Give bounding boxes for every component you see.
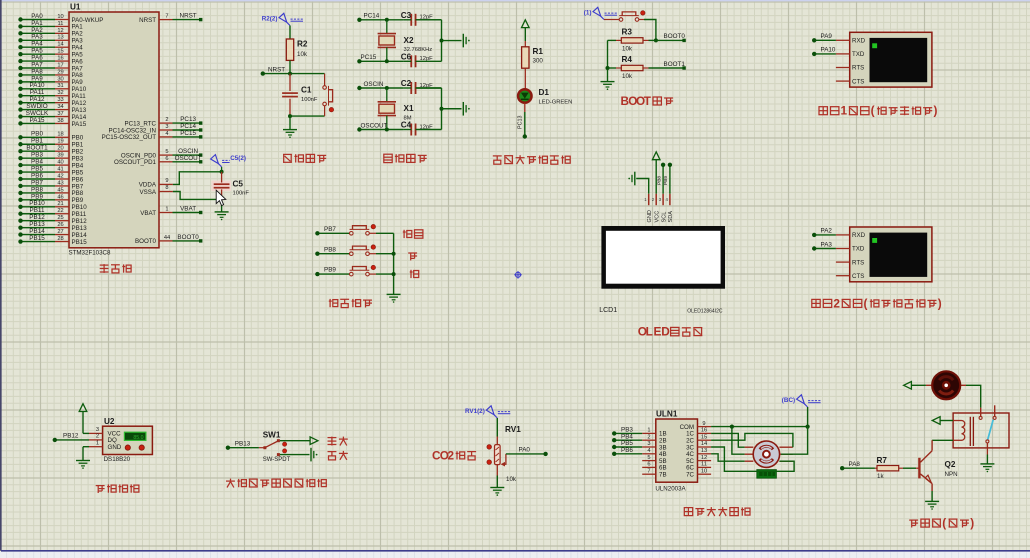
wire 4C to motor lower-left — [711, 454, 745, 461]
svg-text:ULN1: ULN1 — [656, 409, 678, 418]
wire coil to Q2 collector — [932, 439, 953, 441]
ground below relay — [980, 463, 994, 465]
svg-text:PB12: PB12 — [72, 218, 88, 225]
node COM junction right — [806, 425, 810, 429]
wire throw1 to power arrow — [280, 440, 310, 442]
motor green label — [757, 470, 777, 479]
node COM junction left — [730, 425, 734, 429]
svg-text:C6: C6 — [401, 53, 412, 62]
driver ULN1 ULN2003A — [655, 409, 697, 492]
svg-text:OLED12864I2C: OLED12864I2C — [687, 309, 723, 315]
label 程序运行指示灯 (program running indicator) — [493, 156, 502, 164]
svg-text:7B: 7B — [659, 472, 667, 479]
mouse cursor — [216, 190, 226, 205]
label 加 (plus) — [408, 253, 417, 260]
svg-text:2: 2 — [647, 434, 650, 440]
pin OSCOUT_PD1 (pin 6) with net OSCOUT — [114, 155, 202, 166]
svg-text:(: ( — [871, 104, 875, 118]
capacitor C1 100nF — [282, 74, 318, 117]
wire power to VCC — [82, 412, 84, 434]
svg-text:U2: U2 — [104, 417, 115, 426]
svg-text:11: 11 — [701, 462, 707, 468]
svg-text:21: 21 — [57, 201, 63, 207]
svg-text:PA10: PA10 — [821, 47, 836, 54]
potentiometer RV1 10k — [495, 425, 522, 483]
ULN pin 7C (pin 10) — [686, 468, 711, 478]
svg-text:PA8: PA8 — [849, 461, 861, 468]
pin PC15-OSC32_OUT (pin 4) with net PC15 — [102, 130, 203, 141]
pin PA7 (pin 17) with net PA7 — [18, 61, 83, 72]
svg-text:PB6: PB6 — [31, 172, 43, 179]
pin PB14 (pin 27) with net PB14 — [18, 228, 87, 239]
svg-text:1: 1 — [841, 104, 848, 118]
svg-text:10k: 10k — [297, 51, 308, 58]
svg-text:BOOT0: BOOT0 — [135, 238, 157, 245]
wire button to bus — [369, 273, 376, 275]
voltage probe (BC) — [804, 404, 807, 407]
svg-text:10k: 10k — [622, 46, 633, 53]
svg-text:16: 16 — [57, 55, 63, 61]
svg-text:PB9: PB9 — [663, 176, 669, 185]
svg-text:13: 13 — [701, 448, 707, 454]
svg-text:PB1: PB1 — [72, 142, 84, 149]
ULN pin 1B (pin 1) — [642, 428, 666, 438]
svg-text:PB13: PB13 — [72, 225, 88, 232]
svg-text:PB1: PB1 — [31, 138, 43, 145]
svg-text:RTS: RTS — [852, 65, 864, 72]
svg-text:C5(2): C5(2) — [230, 155, 246, 162]
svg-text:20: 20 — [57, 146, 63, 152]
power symbol above U2 — [79, 404, 87, 412]
transistor Q2 NPN — [919, 440, 957, 491]
svg-text:33: 33 — [57, 97, 63, 103]
svg-text:SCL: SCL — [661, 212, 667, 223]
svg-text:46: 46 — [57, 194, 63, 200]
svg-text:16: 16 — [701, 428, 707, 434]
svg-text:31: 31 — [57, 83, 63, 89]
ground below keys — [387, 293, 401, 295]
wire 1C to motor upper-left — [711, 433, 745, 447]
terminal cursor — [872, 238, 877, 243]
net PC15 wire — [357, 54, 403, 63]
pin PB3 (pin 39) with net PB3 — [18, 152, 83, 163]
svg-text:PB14: PB14 — [72, 232, 88, 239]
ULN pin 2C (pin 15) — [686, 434, 711, 444]
svg-text:PB6: PB6 — [72, 176, 84, 183]
svg-text:15: 15 — [57, 49, 63, 55]
bus wire down to ground — [393, 233, 395, 294]
relay RL1 — [953, 405, 1009, 448]
ground below reset — [289, 116, 291, 129]
terminal pin RTS — [836, 65, 864, 72]
pin PA6 (pin 16) with net PA6 — [18, 54, 83, 65]
svg-text:D1: D1 — [539, 88, 550, 97]
wire button to BOOT0 node — [639, 19, 644, 21]
svg-text:44: 44 — [164, 235, 170, 241]
svg-text:PC15: PC15 — [180, 130, 196, 137]
svg-text:6: 6 — [647, 462, 650, 468]
pin BOOT0 (pin 44) with net BOOT0 — [135, 234, 202, 245]
pin PA12 (pin 33) with net PA12 — [18, 96, 86, 107]
net PB3 wire — [612, 427, 642, 436]
svg-text:10k: 10k — [506, 476, 517, 483]
net PA3 wire — [812, 241, 836, 250]
capacitor C4 12pF — [401, 121, 433, 136]
power symbol (left arrow) at sounder — [904, 382, 912, 390]
net BOOT0 wire — [656, 33, 686, 42]
wire emitter to ground — [931, 491, 933, 501]
svg-text:PB5: PB5 — [31, 165, 43, 172]
svg-text:RTS: RTS — [852, 259, 864, 266]
label 测温模块 (temperature module) — [96, 486, 105, 493]
pin PA10 (pin 31) with net PA10 — [18, 82, 86, 93]
pin PB0 (pin 18) with net PB0 — [18, 131, 83, 142]
svg-text:RV1(2): RV1(2) — [465, 408, 485, 415]
terminal cursor — [872, 43, 877, 48]
terminal pin RTS — [836, 259, 864, 266]
capacitor C6 12pF — [401, 53, 433, 68]
svg-text:PB11: PB11 — [30, 207, 45, 214]
display LCD1 OLED12864I2C — [599, 226, 725, 315]
ULN pin 6C (pin 11) — [686, 462, 711, 472]
svg-text:RXD: RXD — [852, 232, 866, 239]
pin PA15 (pin 38) with net PA15 — [18, 117, 86, 128]
svg-text:GND: GND — [108, 444, 122, 451]
resistor R4 10k — [608, 55, 649, 80]
pin PA14 (pin 37) with net SWCLK — [18, 110, 86, 121]
pin PB15 (pin 28) with net PB15 — [18, 235, 87, 246]
svg-text:PB8: PB8 — [324, 246, 336, 253]
pin PA11 (pin 32) with net PA11 — [18, 89, 86, 100]
RV1 wiper arrow — [501, 454, 506, 467]
label 继电器(启动) (relay start) — [909, 520, 918, 527]
wire 3C to motor lower-right — [711, 447, 794, 471]
svg-text:GND: GND — [647, 210, 653, 222]
svg-text:14: 14 — [701, 441, 707, 447]
svg-text:PB4: PB4 — [72, 162, 84, 169]
node bus junction PB9 — [392, 272, 396, 276]
svg-text:12: 12 — [57, 28, 63, 34]
ground (sideways) 有人 — [310, 448, 312, 462]
switch SW1 SW-SPDT — [259, 430, 291, 463]
svg-text:TXD: TXD — [852, 246, 865, 253]
ground below R3/R4 bus — [601, 81, 615, 83]
resistor R1 300 — [522, 41, 544, 68]
svg-text:RV1: RV1 — [505, 425, 521, 434]
pin NRST (pin 7) with net NRST — [139, 13, 202, 24]
net PB9 wire — [315, 267, 349, 277]
svg-text:37: 37 — [57, 111, 63, 117]
net PB13 wire — [226, 440, 259, 450]
svg-text:5: 5 — [647, 455, 650, 461]
resistor R7 1k — [842, 456, 919, 480]
ULN pin 3B (pin 3) — [642, 441, 666, 451]
svg-text:41: 41 — [57, 166, 63, 172]
net PB9 wire to SDA — [663, 163, 672, 194]
svg-text:NPN: NPN — [945, 471, 958, 478]
terminal pin RXD — [836, 38, 866, 45]
svg-text:PB11: PB11 — [72, 211, 87, 218]
wire R2 to NRST node — [289, 60, 291, 73]
net PA2 wire — [812, 228, 836, 237]
svg-text:VBAT: VBAT — [140, 210, 156, 217]
svg-text:45: 45 — [57, 187, 63, 193]
svg-text:BOOT0: BOOT0 — [177, 234, 199, 241]
pin PB1 (pin 19) with net PB1 — [18, 138, 83, 149]
wire R3 to R4 left bus — [607, 40, 609, 81]
wire probe to R2 — [289, 26, 291, 40]
svg-text:2: 2 — [96, 434, 99, 440]
capacitor C3 12pF — [401, 11, 433, 26]
svg-text:9: 9 — [165, 178, 168, 184]
label 独立按键 (independent keys) — [329, 299, 338, 307]
pin PB5 (pin 41) with net PB5 — [18, 165, 83, 176]
svg-text:C2: C2 — [401, 79, 412, 88]
svg-text:12: 12 — [701, 455, 707, 461]
svg-text:PB14: PB14 — [29, 228, 45, 235]
terminal pin CTS — [836, 78, 864, 85]
svg-text:PB6: PB6 — [621, 447, 633, 454]
svg-text:R2: R2 — [297, 40, 308, 49]
label 无人 (no person) — [328, 437, 337, 446]
svg-text:PA15: PA15 — [30, 117, 45, 124]
node R4 left junction — [606, 66, 610, 70]
svg-text:PB7: PB7 — [72, 183, 84, 190]
ULN pin 5C (pin 12) — [686, 455, 711, 465]
svg-text:PB7: PB7 — [324, 226, 336, 233]
svg-text:): ) — [938, 296, 942, 310]
node right junction — [440, 39, 444, 43]
wire sounder to relay common — [966, 385, 981, 407]
origin marker — [514, 271, 522, 279]
svg-text:BOOT1: BOOT1 — [664, 61, 686, 68]
svg-text:6: 6 — [165, 156, 168, 162]
svg-text:8: 8 — [165, 185, 168, 191]
svg-text:OSCOUT: OSCOUT — [175, 155, 202, 162]
svg-text:PB9: PB9 — [31, 193, 43, 200]
node C1 bottom junction — [288, 114, 292, 118]
svg-text:OSCIN: OSCIN — [364, 81, 384, 88]
wire button to bus — [369, 232, 376, 234]
pin PA8 (pin 29) with net PA8 — [18, 68, 83, 79]
voltage probe RV1(2) — [494, 415, 497, 418]
wire to side ground — [442, 108, 462, 110]
svg-text:R4: R4 — [622, 55, 633, 64]
svg-text:STM32F103C8: STM32F103C8 — [69, 250, 112, 257]
svg-text:9: 9 — [702, 421, 705, 427]
pin PA3 (pin 13) with net PA3 — [18, 34, 83, 45]
svg-text:PC15: PC15 — [361, 54, 377, 61]
pin PB9 (pin 46) with net PB9 — [18, 193, 83, 204]
net PB12 wire to DQ (2) — [53, 433, 103, 442]
pin PB11 (pin 22) with net PB11 — [18, 207, 86, 218]
node R3 right junction — [654, 38, 658, 42]
net PB7 wire — [315, 226, 349, 236]
svg-text:100nF: 100nF — [301, 97, 318, 103]
label 有人 (person) — [328, 452, 337, 460]
svg-text:3: 3 — [165, 124, 168, 130]
ground below C5 — [215, 211, 229, 213]
svg-text:PB3: PB3 — [72, 155, 84, 162]
svg-text:PB9: PB9 — [324, 267, 336, 274]
pin PA9 (pin 30) with net PA9 — [18, 75, 83, 86]
svg-text:OSCOUT: OSCOUT — [361, 122, 388, 129]
net PC14 wire — [357, 13, 403, 22]
pin PC13_RTC (pin 2) with net PC13 — [124, 116, 202, 127]
svg-text:BOOT1: BOOT1 — [26, 145, 48, 152]
svg-text:PB5: PB5 — [72, 169, 84, 176]
wire COM to motor right-middle — [781, 427, 808, 455]
svg-text:2: 2 — [165, 117, 168, 123]
pin PB8 (pin 45) with net PB8 — [18, 186, 83, 197]
svg-text:NRST: NRST — [180, 13, 197, 20]
power symbol above OLED VCC — [652, 152, 660, 160]
svg-text:PB13: PB13 — [235, 440, 251, 447]
node PC15 junction at crystal — [385, 59, 389, 63]
svg-text:C1: C1 — [301, 86, 312, 95]
svg-text:PB3: PB3 — [31, 152, 43, 159]
ground (sideways) — [462, 34, 464, 48]
svg-text:PB10: PB10 — [29, 200, 45, 207]
svg-text:T: T — [644, 95, 652, 108]
voltage probe R2(2) — [287, 22, 290, 25]
sounder — [926, 371, 966, 399]
svg-text:2: 2 — [833, 296, 840, 310]
svg-text:DS18B20: DS18B20 — [104, 456, 131, 463]
push button PB9 — [350, 272, 354, 276]
U2 pin VCC (3) — [89, 427, 103, 433]
node bus junction PB8 — [392, 252, 396, 256]
svg-text:27: 27 — [57, 229, 63, 235]
svg-text:22: 22 — [57, 208, 63, 214]
svg-text:VSSA: VSSA — [139, 189, 156, 196]
ground below U2 — [76, 460, 90, 462]
pin PB13 (pin 26) with net PB13 — [18, 221, 87, 232]
pin VSSA (pin 8) — [139, 185, 172, 196]
svg-text:13: 13 — [57, 35, 63, 41]
pin VDDA (pin 9) — [139, 178, 173, 189]
label 减 (minus) — [410, 270, 419, 278]
node NRST junction — [288, 72, 292, 76]
label 设置 (set) — [403, 230, 412, 238]
svg-text:4: 4 — [165, 131, 168, 137]
sheet border — [0, 552, 1030, 558]
svg-text:10k: 10k — [622, 73, 633, 80]
svg-text:300: 300 — [533, 58, 544, 65]
net OSCOUT wire — [357, 122, 403, 131]
node OSCIN junction at crystal — [385, 86, 389, 90]
node OSCOUT junction at crystal — [385, 128, 389, 132]
svg-text:VDDA: VDDA — [139, 182, 157, 189]
ULN pin 2B (pin 2) — [642, 434, 666, 444]
pin PB12 (pin 25) with net PB12 — [18, 214, 87, 225]
voltage probe (1) — [601, 16, 604, 19]
wire RV1 to ground — [496, 465, 498, 476]
wire C2 right — [416, 87, 442, 89]
net PB8 wire to SCL — [656, 163, 665, 194]
svg-text:PB9: PB9 — [72, 197, 84, 204]
voltage probe C5(2) — [211, 155, 246, 172]
svg-text:PB2: PB2 — [72, 149, 84, 156]
svg-text:LED-GREEN: LED-GREEN — [539, 99, 573, 105]
terminal pin RXD — [836, 232, 866, 239]
svg-text:26: 26 — [57, 222, 63, 228]
svg-text:SW1: SW1 — [263, 430, 281, 439]
wire power to R1 — [524, 28, 526, 41]
wire throw2 to side ground — [280, 454, 310, 456]
reset push button — [323, 74, 334, 117]
svg-text:PB10: PB10 — [72, 204, 88, 211]
wire VDDA to C5 top — [173, 172, 222, 185]
svg-text:X2: X2 — [404, 36, 414, 45]
svg-text:VCC: VCC — [654, 211, 660, 223]
wire GND to ground — [82, 447, 84, 460]
svg-text:85.0: 85.0 — [133, 435, 143, 441]
svg-text:1k: 1k — [877, 473, 884, 480]
svg-text:19: 19 — [57, 139, 63, 145]
svg-text:(1): (1) — [584, 10, 592, 17]
net BOOT1 wire — [649, 61, 686, 70]
crystal X2 32.768KHz — [378, 20, 433, 62]
svg-text:10: 10 — [701, 468, 707, 474]
svg-text:11: 11 — [58, 21, 64, 27]
svg-text:SDA: SDA — [668, 211, 674, 223]
node PC14 junction at crystal — [385, 18, 389, 22]
net PB6 wire — [612, 447, 642, 456]
boot select push button — [619, 18, 623, 22]
pin PC14-OSC32_IN (pin 3) with net PC14 — [109, 123, 203, 134]
ULN pin 6B (pin 6) — [642, 462, 666, 472]
svg-text:X1: X1 — [404, 104, 414, 113]
wire COM to motor left-middle — [732, 427, 745, 455]
svg-text:43: 43 — [57, 180, 63, 186]
terminal pin TXD — [836, 246, 865, 253]
svg-text:1: 1 — [647, 428, 650, 434]
push button PB8 — [350, 252, 354, 256]
pin PA2 (pin 12) with net PA2 — [18, 27, 83, 38]
label 串口2窗口(模拟语音识别) — [812, 299, 820, 307]
net PB8 wire — [315, 246, 349, 256]
svg-text:PB8: PB8 — [31, 186, 43, 193]
svg-text:SW-SPDT: SW-SPDT — [263, 457, 291, 463]
resistor R2 10k — [286, 39, 308, 60]
svg-text:C5: C5 — [233, 180, 244, 189]
svg-text:NRST: NRST — [268, 66, 285, 73]
svg-text:LCD1: LCD1 — [599, 307, 617, 314]
svg-text:CTS: CTS — [852, 78, 864, 85]
svg-text:E: E — [653, 325, 661, 339]
svg-text:29: 29 — [57, 69, 63, 75]
svg-text:3: 3 — [96, 427, 99, 433]
microcontroller U1 STM32F103C8 — [69, 12, 159, 248]
svg-text:PB15: PB15 — [72, 239, 88, 246]
svg-text:D: D — [661, 325, 670, 339]
wire power to VCC pin — [655, 160, 657, 194]
svg-text:100nF: 100nF — [233, 191, 250, 197]
net PA0 wire — [506, 447, 548, 456]
wire R1 to D1 — [524, 68, 526, 89]
svg-text:PB8: PB8 — [72, 190, 84, 197]
svg-text:R3: R3 — [622, 28, 633, 37]
pin PA5 (pin 15) with net PA5 — [18, 48, 83, 59]
power symbol (left arrow) at relay coil — [932, 417, 940, 425]
wire power to sounder — [911, 384, 926, 386]
svg-text:25: 25 — [57, 215, 63, 221]
crystal X1 8M — [378, 88, 414, 130]
pin PB2 (pin 20) with net BOOT1 — [18, 145, 83, 156]
svg-text:PA9: PA9 — [821, 33, 833, 40]
net PB4 wire — [612, 433, 642, 442]
